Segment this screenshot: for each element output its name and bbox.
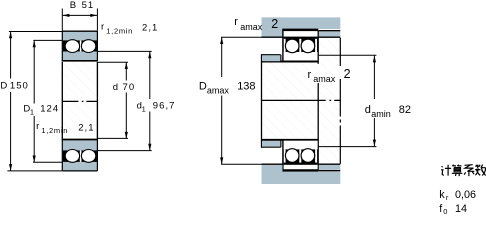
wire centerline left figure	[62, 100, 97, 102]
node bearing bottom section	[62, 140, 98, 171]
系	[464, 165, 474, 176]
node housing shoulder bottom-left	[262, 165, 283, 184]
svg-text:r: r	[36, 121, 40, 132]
svg-text:d: d	[365, 104, 371, 116]
svg-text:1,2min: 1,2min	[41, 126, 68, 135]
svg-text:2: 2	[344, 67, 351, 81]
node air gap between shaft and housing cover	[319, 38, 340, 164]
svg-text:amax: amax	[240, 22, 263, 32]
数	[475, 165, 485, 176]
node shaft shoulder bottom	[262, 141, 281, 147]
svg-text:51: 51	[82, 0, 95, 11]
svg-text:1,2min: 1,2min	[106, 27, 133, 36]
wire bearing seat line top (housing bore)	[283, 29, 319, 32]
node housing shoulder top-left	[262, 17, 283, 36]
wire D extension lines	[7, 32, 62, 171]
svg-text:82: 82	[399, 104, 411, 116]
node bearing bottom section (right figure)	[284, 141, 318, 170]
wire d extension lines	[98, 62, 128, 138]
svg-text:138: 138	[237, 81, 255, 93]
svg-text:0: 0	[443, 207, 447, 216]
svg-text:amax: amax	[207, 86, 230, 96]
svg-text:k: k	[439, 189, 445, 201]
node bearing top section (right figure, white)	[284, 31, 318, 61]
svg-text:r: r	[308, 69, 312, 81]
wire bore line top (shaft seat)	[262, 61, 319, 63]
node housing cover block top-right	[319, 32, 340, 37]
wire bore line bottom	[262, 139, 319, 141]
svg-text:2: 2	[271, 17, 278, 31]
svg-text:70: 70	[123, 82, 136, 93]
wire shaft shoulder face line	[261, 55, 263, 148]
svg-text:amin: amin	[371, 109, 391, 119]
wire D1 extension lines	[33, 40, 62, 162]
svg-text:d: d	[113, 82, 119, 93]
node shaft shoulder top	[262, 55, 281, 61]
wire Da extension lines	[221, 37, 262, 164]
node housing band top	[262, 17, 341, 29]
svg-text:96,7: 96,7	[153, 101, 176, 112]
wire D dimension line with arrows	[10, 32, 12, 171]
svg-text:D: D	[199, 81, 207, 93]
wire d1 dimension line with arrows	[149, 51, 151, 150]
wire bearing left face line	[282, 29, 284, 62]
wire centerline right figure	[262, 99, 341, 101]
wire shaft right face line	[317, 31, 319, 170]
wire housing inner face vertical right	[339, 38, 341, 164]
wire da extension lines	[318, 55, 376, 146]
svg-text:amax: amax	[313, 74, 336, 84]
node calculation-factors heading (CJK approximated)	[441, 165, 486, 177]
wire D1 dimension line with arrows	[33, 40, 35, 162]
node bearing top section (outer ring, balls, inner ring)	[62, 31, 98, 62]
wire bearing left face line bottom	[282, 140, 284, 173]
svg-text:r: r	[234, 16, 238, 28]
算	[452, 165, 463, 177]
svg-text:1: 1	[142, 104, 146, 113]
svg-text:D: D	[0, 80, 8, 91]
wire B dimension line	[63, 14, 98, 16]
wire d1 extension lines	[98, 51, 152, 150]
svg-text:2,1: 2,1	[142, 23, 158, 34]
node housing cover block bottom-right	[319, 165, 340, 170]
wire bearing seat line bottom	[283, 169, 319, 172]
wire da dimension line with arrows	[373, 56, 375, 147]
svg-text:150: 150	[10, 80, 29, 91]
node housing band bottom	[262, 172, 341, 184]
svg-text:14: 14	[455, 203, 467, 215]
svg-text:124: 124	[40, 104, 59, 115]
svg-text:r: r	[446, 193, 449, 202]
计	[441, 165, 451, 176]
svg-text:0,06: 0,06	[455, 189, 476, 201]
wire Da dimension line with arrows	[221, 37, 223, 164]
wire d dimension line with arrows	[125, 62, 127, 138]
svg-text:B: B	[70, 0, 77, 11]
svg-text:2,1: 2,1	[78, 122, 94, 133]
wire B extension lines	[62, 9, 97, 31]
node bore rectangle	[62, 62, 97, 140]
svg-text:1: 1	[30, 107, 34, 116]
node shaft body	[262, 63, 317, 140]
svg-text:r: r	[101, 22, 105, 33]
